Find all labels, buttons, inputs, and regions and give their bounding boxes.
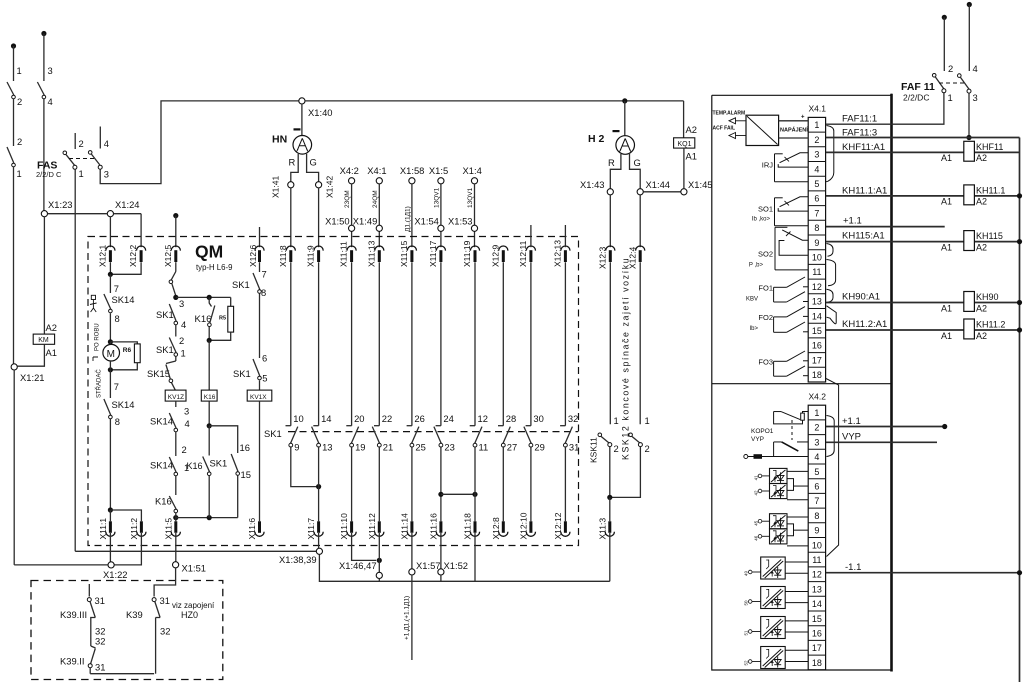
connector X11:8 <box>286 246 295 251</box>
svg-text:1: 1 <box>181 348 186 359</box>
jumper pins 9-10 <box>827 244 834 257</box>
svg-text:SO2: SO2 <box>758 250 773 259</box>
jumper pins 10-12 <box>827 260 836 286</box>
wire X1:40 down to lamp HN <box>301 104 303 136</box>
svg-text:+1.Д1,(+1.1Д1): +1.Д1,(+1.1Д1) <box>404 596 411 640</box>
svg-text:FAF 11: FAF 11 <box>901 81 935 93</box>
svg-text:X1:24: X1:24 <box>115 199 140 210</box>
svg-text:X12:1: X12:1 <box>98 245 108 267</box>
svg-text:3: 3 <box>814 150 819 160</box>
wire contact 27 down to X12:8 <box>502 446 504 521</box>
svg-text:A1: A1 <box>941 153 952 163</box>
svg-text:23: 23 <box>444 442 454 453</box>
svg-text:19: 19 <box>355 442 365 453</box>
svg-text:11: 11 <box>479 442 489 453</box>
plug 46 <box>758 535 762 539</box>
wires pair1 to pins 5 6 7 <box>787 470 808 472</box>
wire X11:18 to bus L2 <box>474 533 476 581</box>
svg-text:2/2/D C: 2/2/D C <box>36 170 62 179</box>
connector X12:1 <box>106 246 115 251</box>
cam contact SK1 32-31 <box>564 262 566 426</box>
svg-text:2: 2 <box>948 63 953 74</box>
wire X1:57 down off page <box>411 575 413 660</box>
svg-text:IRJ: IRJ <box>762 161 774 170</box>
control unit enclosure <box>712 94 892 672</box>
svg-text:Д1,(1Д1): Д1,(1Д1) <box>404 206 411 232</box>
svg-text:31: 31 <box>95 662 105 673</box>
wire X1:43 down to connector X12:3 <box>609 195 611 247</box>
connector X12:9 <box>499 246 508 251</box>
svg-text:+1.1: +1.1 <box>843 216 862 227</box>
svg-text:29: 29 <box>534 442 544 453</box>
svg-text:52: 52 <box>744 660 749 666</box>
relay coil KH11.2 <box>964 319 975 339</box>
cam contact SK1 30-29 <box>530 262 532 426</box>
svg-text:3: 3 <box>179 298 184 309</box>
svg-text:KH115:A1: KH115:A1 <box>842 231 885 242</box>
svg-text:16: 16 <box>240 442 250 453</box>
svg-text:1: 1 <box>814 408 819 418</box>
svg-text:14: 14 <box>812 599 822 609</box>
svg-text:X11:15: X11:15 <box>399 240 409 267</box>
wire top bus corner down to KQ1 A2 <box>683 101 685 138</box>
indicator module 52 <box>761 647 786 669</box>
svg-text:X1:22: X1:22 <box>103 569 128 580</box>
wire contact 19 down to X11:10 <box>351 446 353 521</box>
wire to SK14 lower <box>109 370 111 398</box>
svg-text:KH11.1:A1: KH11.1:A1 <box>842 186 887 197</box>
wire contact 23 down to X11:16 <box>440 446 442 521</box>
wire X12:2 down join X12:1 <box>110 262 141 274</box>
junction top bus H2 <box>622 98 627 103</box>
svg-text:22: 22 <box>382 413 392 424</box>
connector X12:8 <box>502 521 505 533</box>
connector X12:2 <box>137 246 146 251</box>
wire K39 down to rail <box>155 618 157 674</box>
connector X12:6 stub <box>259 227 261 247</box>
connector X11:11 <box>347 246 356 251</box>
wire X1:24 drop <box>107 211 113 217</box>
svg-text:1: 1 <box>814 120 819 130</box>
svg-text:SK14: SK14 <box>112 399 135 410</box>
svg-text:FAF11:1: FAF11:1 <box>842 114 877 125</box>
terminal X1:42 <box>316 182 322 188</box>
svg-text:SK14: SK14 <box>150 416 173 427</box>
svg-text:32: 32 <box>160 626 170 637</box>
wire KHF11 coil row <box>826 151 964 153</box>
svg-text:13: 13 <box>812 297 822 307</box>
svg-text:KM: KM <box>38 337 49 344</box>
contact K39 31-32 <box>152 598 156 602</box>
wire X1:5 down to QM <box>440 184 442 247</box>
svg-text:31: 31 <box>95 595 105 606</box>
svg-text:7: 7 <box>814 496 819 506</box>
svg-text:X1:58: X1:58 <box>400 165 425 176</box>
breaker FAS pole 1 lower terminal <box>73 165 77 169</box>
svg-text:A1: A1 <box>941 331 952 341</box>
wires module 51 to pins 15 16 <box>785 620 808 622</box>
wires module 49 to pins 11 12 <box>785 561 808 563</box>
mechanical link dashes KOPO1 <box>791 420 793 440</box>
svg-text:X11:10: X11:10 <box>339 513 349 540</box>
svg-text:X12:12: X12:12 <box>553 512 563 539</box>
wire junction to SK14 7-8 <box>109 274 111 293</box>
plug symbol on pin4 line <box>744 455 748 459</box>
breaker FAF11 supply dot pole4 <box>967 2 972 7</box>
terminal X1:46,47 <box>376 572 382 578</box>
svg-text:32: 32 <box>95 636 105 647</box>
horizontal link at 517 <box>176 517 238 519</box>
wire junction to K16 contact branch <box>176 296 231 298</box>
svg-text:3: 3 <box>48 65 53 76</box>
svg-text:HN: HN <box>272 134 287 146</box>
svg-text:KHF11: KHF11 <box>976 142 1003 152</box>
svg-text:4: 4 <box>48 96 53 107</box>
junction X11:5 top <box>173 515 178 520</box>
wire module to pin1 <box>779 120 809 122</box>
svg-text:20: 20 <box>354 413 364 424</box>
svg-text:24: 24 <box>443 413 453 424</box>
svg-text:X1:57: X1:57 <box>416 560 441 571</box>
wire KH115 coil row <box>826 241 964 243</box>
actuator symbol <box>91 295 95 299</box>
svg-text:23QM: 23QM <box>344 190 351 208</box>
plug 52 <box>748 660 752 664</box>
breaker FAF11 supply dot pole2 <box>942 15 947 20</box>
svg-text:51: 51 <box>744 630 749 636</box>
plug 42 <box>758 489 762 493</box>
svg-text:X11:7: X11:7 <box>306 518 316 540</box>
cam contact SK1 26-25 <box>411 262 413 426</box>
svg-text:STŘADAČ: STŘADAČ <box>95 369 103 398</box>
terminal X1:54 <box>438 225 444 231</box>
stub above X12:11 <box>530 225 532 247</box>
terminal X1:21 <box>11 364 17 370</box>
connector X11:9 <box>314 246 323 251</box>
svg-text:X11:16: X11:16 <box>428 513 438 540</box>
svg-text:KHF11:A1: KHF11:A1 <box>842 142 885 153</box>
svg-text:SK1: SK1 <box>210 458 228 469</box>
relay coil KHF11 <box>964 141 975 161</box>
connector X11:19 <box>470 246 479 251</box>
svg-text:26: 26 <box>414 413 424 424</box>
svg-text:ACF FAIL: ACF FAIL <box>713 126 736 132</box>
svg-text:2: 2 <box>182 444 187 455</box>
svg-text:6: 6 <box>814 194 819 204</box>
svg-text:HZ0: HZ0 <box>181 610 198 620</box>
wire X11:10 to X11:12 join <box>352 533 377 560</box>
junction below K16 contact <box>207 338 212 343</box>
svg-text:X11:2: X11:2 <box>129 518 139 540</box>
svg-text:7: 7 <box>814 208 819 218</box>
wire +1.1 X4.2 <box>826 426 945 428</box>
svg-text:KSK11: KSK11 <box>589 437 599 463</box>
svg-text:NAPÁJENÍ: NAPÁJENÍ <box>780 126 808 134</box>
svg-text:2: 2 <box>17 96 22 107</box>
wire X12:4 down to KSK12 <box>639 262 641 424</box>
FAS mechanical link dashes <box>69 158 96 160</box>
connector X12:12 <box>564 521 567 533</box>
svg-text:8: 8 <box>261 287 266 298</box>
wire to motor junction <box>109 313 111 342</box>
FAF11 mechanical link dashes <box>939 82 964 84</box>
bundle line X4.1 pin18 to X4.2 <box>826 379 839 557</box>
indicator module 46 <box>770 529 788 544</box>
svg-text:KQ1: KQ1 <box>678 141 692 148</box>
svg-text:7: 7 <box>114 283 119 294</box>
svg-text:X1:50: X1:50 <box>325 216 350 227</box>
connector X12:13 <box>561 246 570 251</box>
wire X1:23 to KM coil A2 <box>43 217 45 334</box>
cam contact SK1 10-9 <box>290 262 292 426</box>
wire A upper segment <box>13 46 15 81</box>
breaker FAS pole 1 upper stub <box>74 133 76 149</box>
svg-text:18: 18 <box>812 658 822 668</box>
wire KSK12 to junction <box>610 447 641 498</box>
connector X11:7 <box>317 521 320 533</box>
svg-text:SO1: SO1 <box>758 205 773 214</box>
stub above X12:13 <box>564 225 566 247</box>
free node dot above X12:5 <box>173 213 178 218</box>
connector X12:11 <box>526 246 535 251</box>
svg-text:27: 27 <box>507 442 517 453</box>
svg-text:9: 9 <box>294 442 299 453</box>
connector X12:5 <box>171 246 180 251</box>
wire KH11.2 coil row <box>826 329 964 331</box>
svg-text:5: 5 <box>814 179 819 189</box>
svg-text:4: 4 <box>814 452 819 462</box>
svg-text:13QV1: 13QV1 <box>433 187 440 208</box>
terminal X1:45 <box>681 189 687 195</box>
jumper pins 1-5 <box>826 126 834 182</box>
svg-text:A1: A1 <box>941 304 952 314</box>
svg-text:4: 4 <box>814 164 819 174</box>
svg-text:30: 30 <box>533 413 543 424</box>
svg-text:X1:45: X1:45 <box>688 179 713 190</box>
svg-text:R: R <box>289 157 296 168</box>
svg-text:31: 31 <box>569 442 579 453</box>
panel separator line <box>712 383 892 385</box>
svg-text:9: 9 <box>814 238 819 248</box>
plug 51 <box>748 630 752 634</box>
svg-text:KV1X: KV1X <box>250 394 267 401</box>
svg-text:2: 2 <box>179 335 184 346</box>
indicator module 45 <box>770 514 788 529</box>
svg-text:3: 3 <box>184 406 189 417</box>
wire KH90 coil row <box>826 302 964 304</box>
wires module 50 to pins 13 14 <box>785 590 808 592</box>
terminal X1:50 <box>349 225 355 231</box>
svg-text:10: 10 <box>812 540 822 550</box>
svg-text:X1:52: X1:52 <box>444 560 469 571</box>
wire X11:2 to X1:22 <box>114 533 141 565</box>
terminal X1:44 <box>637 189 643 195</box>
svg-text:A1: A1 <box>941 243 952 253</box>
svg-text:6: 6 <box>262 353 267 364</box>
svg-text:Ib>: Ib> <box>749 326 758 332</box>
connector X11:2 <box>140 521 143 533</box>
svg-text:FO2: FO2 <box>758 313 773 322</box>
connector X11:15 <box>407 246 416 251</box>
svg-text:X11:5: X11:5 <box>163 518 173 540</box>
connector X12:10 <box>529 521 532 533</box>
connector X11:10 <box>350 521 353 533</box>
wire FAF11 pole1 to pin1 wire <box>826 93 944 124</box>
svg-text:typ-H L6-9: typ-H L6-9 <box>196 263 232 272</box>
connector X11:14 <box>410 521 413 533</box>
cam switch SK1 mechanical line <box>288 431 578 433</box>
terminal X1:38,39 <box>316 548 322 554</box>
svg-text:10: 10 <box>293 413 303 424</box>
connector X11:1 <box>109 521 112 533</box>
wire FAS pole1 down to bus L1 <box>74 169 76 551</box>
disconnect switch B contacts 3-4 <box>37 82 44 95</box>
svg-text:8: 8 <box>814 223 819 233</box>
wire X11:14 to X1:57 <box>411 533 413 569</box>
wire X1:51 into box <box>154 568 176 597</box>
svg-text:3: 3 <box>814 437 819 447</box>
connector X11:13 <box>375 246 384 251</box>
wire A mid segment <box>13 99 15 146</box>
svg-text:X1:41: X1:41 <box>271 176 281 198</box>
svg-text:X1:51: X1:51 <box>182 563 207 574</box>
svg-text:31: 31 <box>160 595 170 606</box>
wire B upper segment <box>43 34 45 82</box>
svg-text:X11:14: X11:14 <box>399 513 409 540</box>
svg-text:2: 2 <box>645 443 650 454</box>
svg-text:18: 18 <box>812 370 822 380</box>
svg-text:X12:2: X12:2 <box>128 245 138 267</box>
svg-text:5: 5 <box>814 467 819 477</box>
wire to K16 coil <box>208 340 210 390</box>
svg-text:12: 12 <box>478 413 488 424</box>
rail right <box>1019 138 1021 683</box>
wire A supply dot <box>11 43 16 48</box>
svg-text:P ,b>: P ,b> <box>749 263 764 269</box>
svg-text:16: 16 <box>812 341 822 351</box>
wire KQ1 A1 to X1:45 <box>683 148 685 189</box>
svg-text:SK1: SK1 <box>156 309 174 320</box>
disconnect switch A2 contacts 2-1 <box>7 147 14 163</box>
relay coil KH115 <box>964 231 975 251</box>
svg-text:+: + <box>801 115 805 121</box>
svg-text:X1:46,47: X1:46,47 <box>339 560 377 571</box>
breaker FAS pole 1 blade <box>63 151 67 155</box>
svg-text:A1: A1 <box>686 151 697 162</box>
svg-text:X12:6: X12:6 <box>248 245 258 267</box>
wire contact 21 down to X11:12 <box>378 446 380 521</box>
bus L1 from FAS pole1 <box>75 550 316 552</box>
top bus from X1:40 to H2 junction <box>305 100 684 102</box>
wire X11:16 to X1:52 <box>440 533 442 569</box>
svg-text:7: 7 <box>114 381 119 392</box>
svg-text:M: M <box>107 349 115 360</box>
wire module to pin2 <box>779 137 809 139</box>
svg-text:KH115: KH115 <box>976 231 1003 241</box>
svg-text:viz zapojení: viz zapojení <box>172 601 215 610</box>
wire X1:44 to X1:45 <box>643 191 681 193</box>
motor M with resistor R6 parallel <box>109 342 111 345</box>
svg-text:SK1: SK1 <box>264 428 282 439</box>
svg-text:15: 15 <box>241 469 251 480</box>
terminal X1:57 <box>409 569 415 575</box>
wire SK14 to X11:1 <box>109 419 111 510</box>
svg-text:VYP: VYP <box>842 432 861 443</box>
breaker FAF11 pole 1 blade <box>932 74 936 78</box>
rotated label STRADAC <box>93 357 98 361</box>
plug 45 <box>758 519 762 523</box>
svg-text:49: 49 <box>744 570 749 576</box>
svg-text:13QV1: 13QV1 <box>467 187 474 208</box>
wire X1:42 down to QM connector X11:9 <box>318 188 320 247</box>
svg-text:50: 50 <box>744 600 749 606</box>
svg-text:X1:54: X1:54 <box>414 216 439 227</box>
wire X4:2 down to QM <box>351 184 353 247</box>
terminal X1:49 <box>376 225 382 231</box>
svg-text:A2: A2 <box>686 124 697 135</box>
resistor R6 <box>110 342 137 344</box>
wire contact 25 down to X11:14 <box>411 446 413 521</box>
relay coil KV1Z <box>165 390 186 401</box>
wire X4:1 down to QM <box>378 184 380 247</box>
svg-text:12: 12 <box>812 570 822 580</box>
svg-text:SK1: SK1 <box>232 279 250 290</box>
svg-text:42: 42 <box>754 490 759 496</box>
svg-text:15: 15 <box>812 326 822 336</box>
svg-text:R5: R5 <box>219 316 226 322</box>
wire KV1X down to X11:6 <box>259 401 261 521</box>
relay coil KM <box>33 334 54 344</box>
svg-text:A2: A2 <box>46 322 57 333</box>
svg-text:28: 28 <box>506 413 516 424</box>
svg-text:R6: R6 <box>123 347 132 354</box>
relay coil K16 <box>201 390 217 401</box>
svg-text:K39.III: K39.III <box>60 609 87 620</box>
svg-text:41: 41 <box>754 475 759 481</box>
svg-text:9: 9 <box>814 526 819 536</box>
connector X11:6 <box>258 521 261 533</box>
svg-text:4: 4 <box>973 63 978 74</box>
svg-text:X11:9: X11:9 <box>306 245 316 267</box>
wire X12:2 riser <box>140 214 142 248</box>
connector X12:3 <box>606 246 615 251</box>
contact VYP lower <box>774 441 782 443</box>
svg-text:4: 4 <box>181 319 186 330</box>
wires pair2 to pins 8 9 10 <box>787 516 808 518</box>
junction QM middle top <box>173 295 178 300</box>
wires module 52 to pins 17 18 <box>785 649 808 651</box>
svg-text:13: 13 <box>812 584 822 594</box>
connector X11:5 <box>174 521 177 533</box>
plug 49 <box>748 570 752 574</box>
wire K16 coil down <box>208 401 210 426</box>
svg-text:4: 4 <box>104 138 109 149</box>
connector X12:4 <box>636 246 645 251</box>
svg-text:X12:3: X12:3 <box>597 247 607 269</box>
junction KSK <box>607 495 612 500</box>
wire FAS pole3 to top bus <box>100 101 302 184</box>
wire down to lamp H2 <box>624 101 626 136</box>
indicator module 49 <box>761 557 786 579</box>
terminal X1:40 on top bus <box>299 98 305 104</box>
svg-text:14: 14 <box>321 413 331 424</box>
svg-text:6: 6 <box>814 481 819 491</box>
svg-text:X12:13: X12:13 <box>553 240 563 267</box>
interlock contact above SK1 column <box>175 262 177 271</box>
svg-text:21: 21 <box>383 442 393 453</box>
svg-text:R: R <box>608 157 615 168</box>
svg-text:KBV: KBV <box>746 296 758 302</box>
